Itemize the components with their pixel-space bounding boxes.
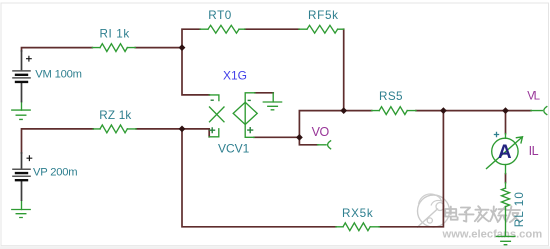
watermark text dian-zi-fa-shao-you (drawn as strokes) [445, 206, 520, 222]
resistor RT 0 leads [200, 28, 245, 30]
resistor RX 5k leads [336, 226, 379, 228]
wire: RZ right lead to junction J2 [136, 128, 182, 130]
ammeter plus (teal) [494, 132, 499, 137]
wire: RT0 right to RF5k left [245, 28, 299, 30]
battery VP black leads [21, 152, 23, 201]
wire: RF5k right corner down to junction J4 [343, 29, 345, 110]
VCVS diamond vertical lead line [245, 93, 255, 138]
resistor RL 10 leads (vertical) [505, 183, 507, 237]
ground below RL [496, 236, 515, 244]
X1G multiplier X symbol [210, 107, 225, 122]
wire: ammeter bottom to RL top [505, 174, 507, 183]
svg-text:RZ 1k: RZ 1k [99, 109, 131, 122]
battery VM bottom green lead and ground [21, 102, 23, 110]
resistor RS 5 leads [372, 110, 416, 112]
ground stub for VCVS [272, 93, 274, 102]
junction J3 [296, 134, 303, 141]
battery VP plus sign [27, 155, 33, 161]
wire: RZ left lead from VP column [22, 129, 94, 153]
wire: diamond top to ground stub [255, 92, 273, 94]
battery VP plates [12, 169, 31, 180]
svg-text:VL: VL [527, 91, 540, 103]
resistor RZ 1k zigzag [100, 125, 127, 133]
svg-text:RT0: RT0 [208, 9, 232, 22]
diamond minus [248, 99, 251, 101]
svg-text:VM 100m: VM 100m [35, 69, 81, 81]
ammeter IL arrow [487, 137, 523, 169]
resistor RI 1k zigzag [100, 44, 127, 52]
svg-text:IL: IL [529, 144, 539, 158]
diamond plus [247, 127, 253, 133]
svg-text:VO: VO [312, 125, 330, 139]
svg-text:RL 10: RL 10 [513, 191, 526, 227]
battery VM black leads [21, 50, 23, 102]
svg-text:VCV1: VCV1 [218, 141, 250, 155]
watermark logo circle [417, 194, 450, 228]
resistor RS 5 zigzag [379, 107, 407, 115]
junction J6 [502, 107, 509, 114]
svg-text:RI 1k: RI 1k [100, 27, 130, 40]
watermark text www.elecfans.com [442, 229, 543, 241]
wire: J3 up to output row [299, 111, 371, 138]
junction J1 [179, 44, 186, 51]
junction J2 [179, 126, 186, 133]
wire: J3 step down to VO terminal lead [299, 137, 317, 144]
VL terminal lead and mark [531, 107, 547, 115]
resistor RL 10 zigzag (vertical) [502, 188, 510, 207]
wire: RX right lead to right column up to junction J5 [379, 111, 443, 227]
resistor RF 5k zigzag [307, 25, 338, 33]
wire: J6 down to ammeter top [505, 111, 507, 134]
ammeter IL bottom lead [505, 165, 507, 174]
X1G lower input bracket [209, 129, 219, 137]
wire: VM top to RI left lead (row B left) [22, 48, 93, 51]
svg-text:X1G: X1G [223, 69, 247, 83]
wire: RS5 right lead to VL lead through J5 and J6 [416, 110, 531, 112]
resistor RX 5k zigzag [343, 223, 370, 231]
VO terminal mark [318, 141, 331, 149]
battery VM plus sign [26, 56, 32, 62]
ground below VM [12, 110, 30, 119]
svg-text:www.elecfans.com: www.elecfans.com [442, 229, 543, 241]
battery VM plates [12, 71, 31, 82]
wire: junction J1 down to X1G upper input [182, 48, 209, 95]
ammeter IL top lead [505, 134, 507, 139]
wire: J2 down left column to RX row [182, 129, 336, 227]
junction J5 [440, 107, 447, 114]
resistor RZ 1k leads [93, 128, 136, 130]
svg-text:RS5: RS5 [379, 90, 403, 103]
svg-text:VP 200m: VP 200m [33, 167, 77, 179]
junction J4 [340, 107, 347, 114]
ammeter IL circle [492, 138, 518, 164]
wire: row A left vertical riser and RT0 left segment [182, 29, 200, 48]
resistor RT 0 zigzag [208, 25, 239, 33]
ground for VCVS (lines) [263, 102, 281, 110]
wire: RI right lead to junction J1 [135, 47, 182, 49]
battery VP bottom green lead [21, 201, 23, 210]
ground below VP [12, 210, 30, 218]
X1G bracket plus [209, 127, 215, 133]
bottom page strip [0, 246, 550, 249]
svg-text:RX5k: RX5k [342, 207, 373, 220]
resistor RF 5k leads [299, 28, 344, 30]
svg-text:A: A [498, 142, 512, 163]
wire: diamond bottom output to junction J3 [254, 136, 299, 138]
wire: junction J2 to X1G lower input with step down [182, 129, 209, 137]
VCVS diamond [233, 102, 257, 124]
X1G bracket minus [211, 99, 214, 101]
svg-text:RF5k: RF5k [308, 9, 339, 22]
X1G upper input bracket [209, 95, 219, 101]
resistor RI 1k leads [92, 47, 135, 49]
